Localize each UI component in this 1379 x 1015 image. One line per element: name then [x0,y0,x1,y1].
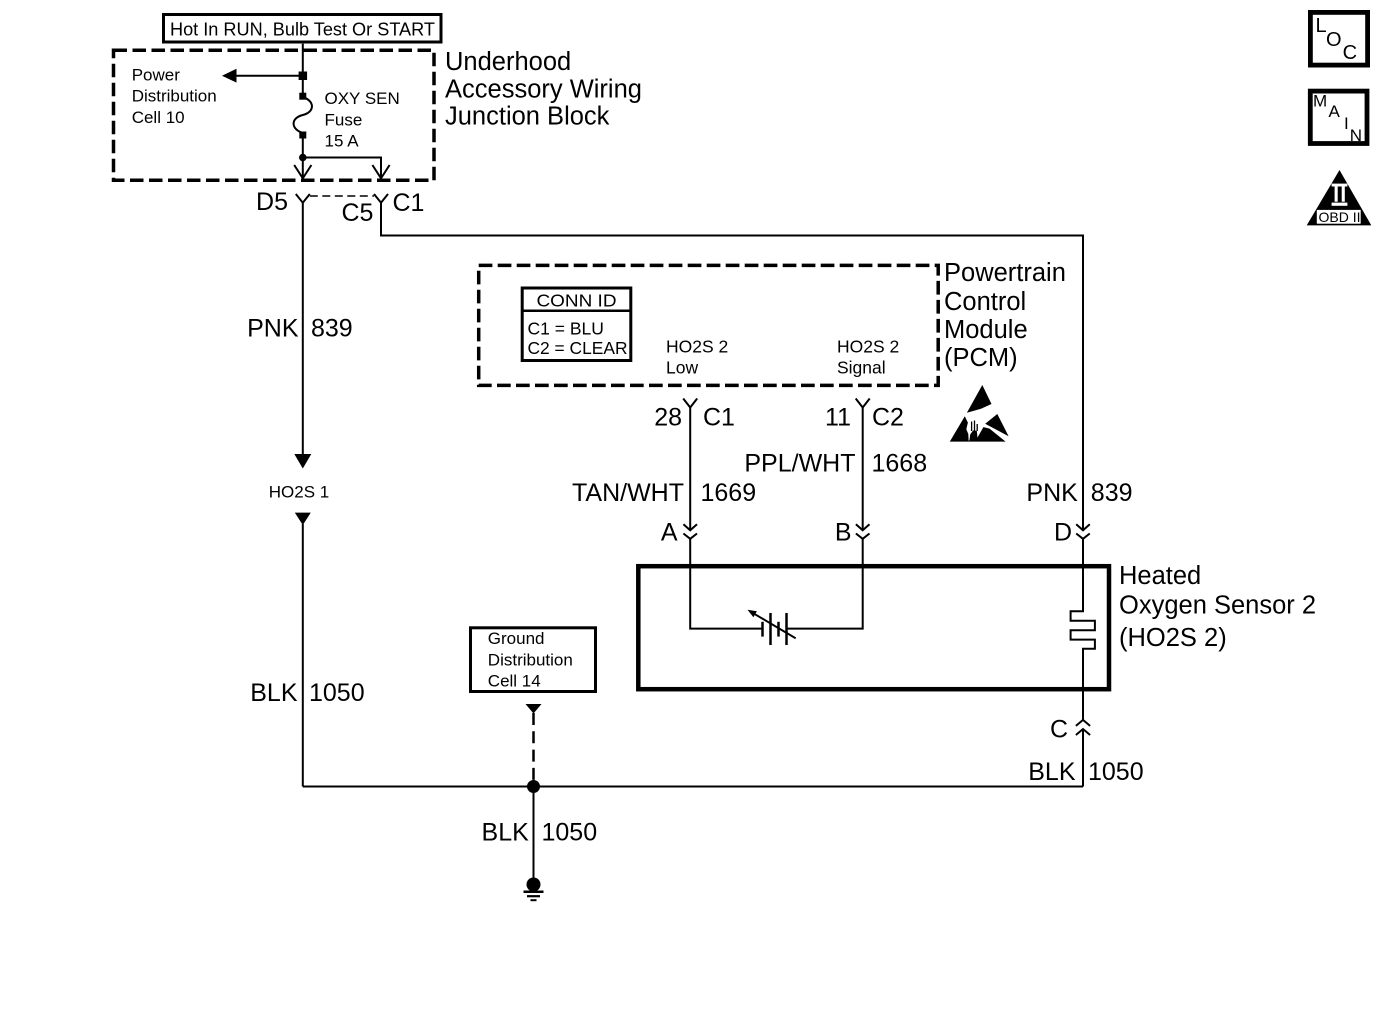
svg-text:C1: C1 [703,404,735,432]
label PNK 839 [247,315,353,343]
svg-text:HO2S 2: HO2S 2 [666,337,728,357]
arrow into D5 [294,165,311,178]
arrow end to HO2S 1 [294,454,311,469]
dashed wire to junction [532,713,535,787]
label BLK 1050 left [250,679,364,707]
MAIN legend box [1310,91,1367,145]
sensor cell B1 (variable battery) [748,610,796,645]
label OXY SEN Fuse 15 A [325,89,400,151]
svg-text:HO2S 2: HO2S 2 [837,337,899,357]
svg-text:11: 11 [825,404,851,432]
label BLK 1050 right [1028,758,1143,786]
Ground Distribution Cell 14 box [471,628,596,692]
svg-text:N: N [1350,126,1362,145]
svg-text:Heated: Heated [1119,562,1201,590]
svg-text:HO2S 1: HO2S 1 [269,482,329,501]
connector D [1054,519,1090,547]
label HO2S 2 Signal [837,337,899,378]
svg-text:1669: 1669 [701,479,757,507]
PCM pin 11 C2 [825,399,904,432]
title Heated Oxygen Sensor 2 (HO2S 2) [1119,562,1316,652]
OBD II symbol [1307,170,1372,225]
label BLK 1050 bottom [482,819,598,847]
label HO2S 2 Low [666,337,728,378]
svg-text:C2: C2 [872,404,904,432]
svg-text:D: D [1054,519,1072,547]
svg-text:Module: Module [944,316,1028,344]
svg-text:L: L [1316,15,1327,37]
svg-text:OXY SEN: OXY SEN [325,89,400,108]
svg-text:15 A: 15 A [325,132,360,151]
svg-text:Hot In RUN, Bulb Test Or START: Hot In RUN, Bulb Test Or START [170,20,435,40]
wire C1 across to right [381,203,1083,531]
svg-text:Accessory Wiring: Accessory Wiring [445,76,642,104]
triangle below ground box [526,704,542,714]
svg-text:Low: Low [666,357,698,377]
wire BLK 1050 to ground [533,787,535,879]
fuse F OXY SEN 15A [294,93,312,139]
LOC legend box [1310,12,1367,65]
svg-text:PNK: PNK [1026,479,1078,507]
svg-text:BLK: BLK [250,679,298,707]
svg-text:OBD II: OBD II [1318,209,1360,225]
ESD sensitive symbol [950,385,1009,442]
svg-text:1668: 1668 [872,450,928,478]
wire PPL/WHT 1668 [862,408,864,531]
svg-text:Cell 10: Cell 10 [132,108,185,127]
wire D into sensor + heater element [1071,539,1095,720]
connector pin C1 [374,194,388,203]
svg-text:Powertrain: Powertrain [944,259,1066,287]
svg-text:D5: D5 [256,188,288,216]
svg-text:A: A [661,519,678,547]
svg-text:PPL/WHT: PPL/WHT [744,450,855,478]
label PNK 839 right [1026,479,1132,507]
svg-text:Power: Power [132,66,181,85]
svg-text:C: C [1343,42,1357,64]
svg-text:839: 839 [1091,479,1133,507]
svg-text:I: I [1344,114,1349,133]
wire start triangle below HO2S 1 [295,513,311,525]
svg-text:Oxygen Sensor 2: Oxygen Sensor 2 [1119,591,1316,619]
svg-text:Distribution: Distribution [132,87,217,106]
wire BLK 1050 right [1082,729,1084,787]
svg-text:CONN ID: CONN ID [537,291,617,311]
svg-text:C2 = CLEAR: C2 = CLEAR [528,338,628,358]
svg-text:Ground: Ground [488,629,545,648]
connector dashed link C5 [310,195,374,197]
svg-text:TAN/WHT: TAN/WHT [572,479,684,507]
wire arrow to Power Distribution [222,69,303,83]
svg-text:Control: Control [944,288,1026,316]
connector B [835,519,870,547]
svg-text:1050: 1050 [309,679,365,707]
junction square at arrow [299,72,308,81]
bottom wire [303,786,1083,788]
junction dot bottom [527,780,540,793]
connector pin D5 [296,194,310,203]
svg-text:Junction Block: Junction Block [445,103,610,131]
junction dot [299,154,307,162]
svg-text:B: B [835,519,852,547]
svg-text:A: A [1329,102,1341,121]
branch wire to C1 arrow [303,158,381,179]
label Power Distribution Cell 10 [132,66,217,127]
svg-text:1050: 1050 [1088,758,1144,786]
svg-text:Fuse: Fuse [325,110,363,129]
wire PNK 839 left [302,203,304,455]
svg-text:28: 28 [654,404,682,432]
title Underhood Accessory Wiring Junction Block [445,48,642,131]
svg-text:C5: C5 [342,199,374,227]
svg-text:C: C [1050,716,1068,744]
PCM dashed box [479,265,939,385]
CONN ID table [522,288,631,361]
svg-text:BLK: BLK [1028,758,1076,786]
Hot In RUN box [164,15,442,43]
title Powertrain Control Module (PCM) [944,259,1066,372]
wire A into sensor [690,539,761,629]
svg-text:839: 839 [311,315,353,343]
svg-text:C1 = BLU: C1 = BLU [528,318,604,338]
svg-text:PNK: PNK [247,315,299,343]
svg-text:C1: C1 [393,189,425,217]
PCM pin 28 C1 [654,399,735,432]
svg-text:(HO2S 2): (HO2S 2) [1119,624,1227,652]
svg-text:M: M [1313,92,1327,111]
wire fuse to junction and down to D5 arrow [302,133,304,178]
HO2S 2 box [638,566,1109,689]
arrow into C1 [372,165,389,178]
svg-text:(PCM): (PCM) [944,344,1018,372]
wire from Hot In RUN down through fuse [302,44,304,97]
label TAN/WHT 1669 [572,479,756,507]
svg-text:O: O [1326,29,1342,51]
wire BLK 1050 left [302,524,304,787]
connector A [661,519,697,547]
svg-text:BLK: BLK [482,819,530,847]
label PPL/WHT 1668 [744,450,927,478]
wire B into sensor [788,539,863,629]
svg-text:Underhood: Underhood [445,48,571,76]
wire TAN/WHT 1669 [689,408,691,531]
junction block dashed box [114,50,435,180]
svg-text:Signal: Signal [837,357,886,377]
connector C [1050,716,1090,744]
svg-text:1050: 1050 [542,819,598,847]
ground G [524,878,544,901]
svg-text:Cell 14: Cell 14 [488,672,541,691]
svg-text:Distribution: Distribution [488,651,573,670]
